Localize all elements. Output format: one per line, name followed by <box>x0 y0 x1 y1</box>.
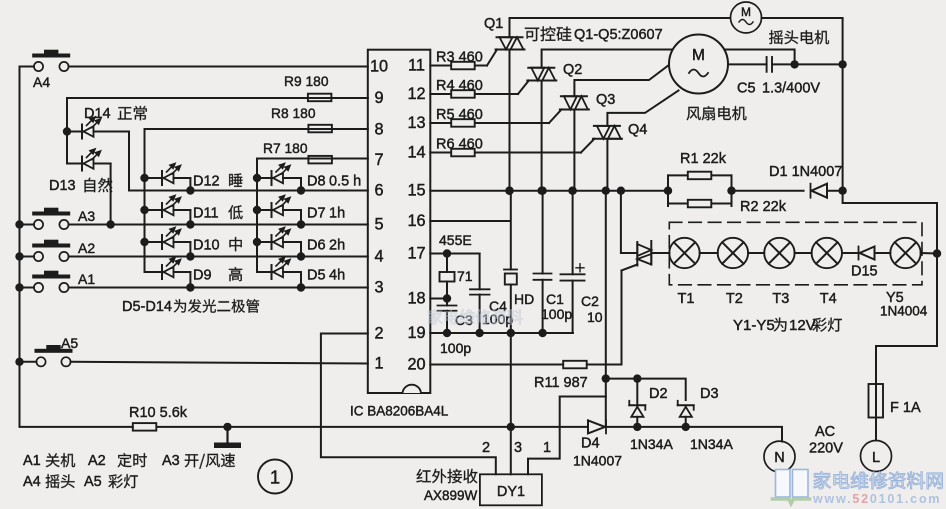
label key functions line1 <box>23 453 235 469</box>
label D9 <box>193 267 242 283</box>
svg-text:19: 19 <box>407 324 425 342</box>
label 455E <box>439 232 472 248</box>
LED D10 <box>145 227 191 256</box>
wire Q1 top <box>510 18 731 37</box>
wire Q5 gate <box>622 265 638 271</box>
node D8 <box>253 174 305 195</box>
resistor R7 <box>263 141 332 163</box>
decor <box>428 309 522 324</box>
label D10 <box>193 237 242 253</box>
wire fuse to L <box>875 418 877 441</box>
svg-text:100p: 100p <box>440 340 471 356</box>
svg-text:0.5 h: 0.5 h <box>329 174 361 190</box>
svg-text:N: N <box>774 450 784 466</box>
label Q3 <box>596 92 615 108</box>
svg-text:R8 180: R8 180 <box>271 106 316 121</box>
triac Q3 <box>560 96 589 109</box>
svg-text:F 1A: F 1A <box>890 400 921 416</box>
label D3 <box>690 386 733 452</box>
label Y5 <box>880 290 928 319</box>
wire D13 to pin5 <box>110 164 112 225</box>
svg-text:6: 6 <box>374 182 383 200</box>
svg-text:9: 9 <box>374 89 383 107</box>
lamp T2 <box>700 238 748 268</box>
label DY1 pins <box>482 440 551 456</box>
lamp Y5 <box>890 238 920 268</box>
wire Q2 anode <box>541 81 543 191</box>
lamp T4 <box>795 238 842 268</box>
svg-text:1N4007: 1N4007 <box>573 453 622 469</box>
wire pin11 lead <box>430 65 450 67</box>
label C2 <box>581 293 603 325</box>
svg-text:D8: D8 <box>307 174 326 190</box>
svg-text:R2 22k: R2 22k <box>740 199 787 215</box>
svg-text:D3: D3 <box>700 386 719 402</box>
label D2 <box>630 386 673 452</box>
svg-text:AC: AC <box>815 424 835 440</box>
label fan motor <box>687 106 747 120</box>
triac Q5 <box>637 241 651 266</box>
wire lamps to fuse <box>876 254 937 385</box>
label C4 <box>482 298 513 327</box>
wire left LED rail <box>144 178 146 272</box>
svg-text:11: 11 <box>408 57 425 75</box>
capacitor C1 <box>534 191 552 333</box>
svg-text:18: 18 <box>407 290 425 308</box>
wire pin20 <box>430 364 563 366</box>
node R bracket right <box>727 187 735 195</box>
svg-text:DY1: DY1 <box>497 484 525 500</box>
motor M1 fan <box>669 35 728 94</box>
wire motor M2 right <box>762 18 843 64</box>
wire supply column <box>605 191 607 427</box>
svg-text:A2: A2 <box>88 453 106 469</box>
switch A3 <box>20 208 368 229</box>
wire left rail <box>20 67 133 427</box>
svg-text:D10: D10 <box>193 238 220 254</box>
terminal L <box>861 441 892 472</box>
label Q2 <box>563 62 582 78</box>
svg-text:17: 17 <box>407 245 425 263</box>
wire pin9 <box>67 98 368 132</box>
label D13 <box>49 178 112 194</box>
node C4 bus <box>475 329 483 337</box>
svg-text:2h: 2h <box>329 238 345 254</box>
wire Q1 anode <box>509 50 511 191</box>
svg-text:10: 10 <box>370 58 388 76</box>
wire D1 to rail <box>827 190 843 192</box>
wire Q2 top <box>542 50 674 68</box>
svg-text:1: 1 <box>270 467 280 488</box>
svg-text:R1 22k: R1 22k <box>680 151 727 167</box>
label thyristor note <box>525 27 663 43</box>
resistor R3 <box>436 50 483 70</box>
switch A2 <box>20 240 368 261</box>
node D13 pin5 <box>106 220 114 228</box>
label D15 <box>851 264 878 280</box>
resistor R4 <box>436 78 483 98</box>
label C1 <box>541 291 572 322</box>
label C3 <box>440 312 473 356</box>
resistor R11 <box>534 361 588 391</box>
node DY1 pin3 tap <box>507 423 515 431</box>
wire pin13 lead <box>430 122 450 124</box>
wire C5 to right rail <box>795 63 843 65</box>
svg-text:T4: T4 <box>820 291 837 307</box>
node HD bus <box>507 329 515 337</box>
capacitor C4 <box>470 254 490 334</box>
svg-text:12: 12 <box>407 85 425 103</box>
svg-text:D5-D14: D5-D14 <box>122 299 172 315</box>
svg-text:1.3/400V: 1.3/400V <box>762 81 820 97</box>
svg-text:www.520101.com: www.520101.com <box>812 492 941 506</box>
label fuse <box>890 400 921 416</box>
wire DY1 pin1 <box>528 397 606 475</box>
label D8 <box>307 174 361 190</box>
wire pin19 bus <box>430 332 573 334</box>
svg-text:Y1-Y5: Y1-Y5 <box>733 317 775 334</box>
label oscillating motor <box>769 30 829 44</box>
node C5 junction <box>790 60 798 68</box>
LED D14 <box>67 117 129 139</box>
label AC 220V <box>809 424 843 457</box>
node D6 <box>253 238 305 261</box>
switch A5 <box>20 335 368 366</box>
LED D7 <box>257 195 301 224</box>
svg-text:M: M <box>692 47 705 64</box>
filter HD <box>504 191 517 427</box>
label D5-D14 <box>122 299 259 315</box>
svg-text:Q2: Q2 <box>563 62 582 78</box>
svg-text:Q1: Q1 <box>484 16 503 32</box>
wire gate Q3 <box>476 110 562 124</box>
svg-text:4h: 4h <box>329 268 345 284</box>
wire pin7 <box>257 159 368 179</box>
wire R11 to Q5 gate <box>588 271 622 365</box>
ground <box>214 423 241 448</box>
node C2 bus15 <box>568 187 576 195</box>
svg-text:D12: D12 <box>193 174 220 190</box>
IC U1 BA8206BA4L body <box>368 50 431 393</box>
svg-text:D6: D6 <box>307 238 326 254</box>
svg-text:4: 4 <box>374 248 383 266</box>
wire D4 bus to N <box>606 427 782 442</box>
svg-text:D5: D5 <box>307 268 326 284</box>
svg-text:R9 180: R9 180 <box>284 74 329 89</box>
svg-text:C5: C5 <box>737 81 756 97</box>
LED D9 <box>145 257 191 287</box>
svg-text:D4: D4 <box>581 436 600 452</box>
label D11 <box>193 205 243 221</box>
label D4 <box>573 436 622 469</box>
motor M2 oscillate <box>731 2 762 33</box>
node D14 <box>63 127 71 135</box>
node Q5 bus <box>617 187 625 195</box>
wire Q4 top <box>607 91 678 126</box>
svg-text:100p: 100p <box>541 306 572 322</box>
svg-text:1h: 1h <box>329 206 345 222</box>
svg-text:1: 1 <box>374 355 383 373</box>
triac Q1 <box>496 37 525 49</box>
svg-text:1N34A: 1N34A <box>630 436 673 452</box>
lamp T1 <box>669 238 699 268</box>
node D5 <box>297 283 305 291</box>
LED D8 <box>257 163 301 190</box>
wire gate Q4 <box>476 139 595 153</box>
page mark circled 1 <box>258 460 292 494</box>
label D14 <box>84 106 147 122</box>
node Q3 bus <box>568 187 576 195</box>
wire ground line <box>157 426 588 428</box>
switch A4 <box>20 50 368 90</box>
svg-text:L: L <box>872 450 880 466</box>
label T3 <box>772 291 789 307</box>
triac Q4 <box>593 126 622 139</box>
svg-text:R11 987: R11 987 <box>534 375 588 391</box>
svg-text:A1: A1 <box>23 453 41 469</box>
wire fan aux <box>724 50 794 65</box>
svg-text:8: 8 <box>374 120 383 138</box>
svg-text:455E: 455E <box>439 232 472 248</box>
label key functions line2 <box>23 474 138 490</box>
diode D3 <box>678 401 694 427</box>
svg-text:3: 3 <box>374 279 383 297</box>
svg-text:D1 1N4007: D1 1N4007 <box>769 164 842 180</box>
svg-text:A3: A3 <box>162 453 180 469</box>
svg-text:R3 460: R3 460 <box>436 50 483 66</box>
wire Q3 top <box>574 63 671 96</box>
svg-text:C2: C2 <box>581 293 599 309</box>
svg-text:15: 15 <box>407 182 425 200</box>
wire D2 D3 top bus <box>606 379 686 400</box>
node right rail D1 <box>838 187 846 195</box>
svg-text:220V: 220V <box>809 441 843 457</box>
label D6 <box>307 238 345 254</box>
label T1 <box>678 291 695 307</box>
wire right LED rail <box>256 178 258 272</box>
label T4 <box>820 291 837 307</box>
svg-text:IC BA8206BA4L: IC BA8206BA4L <box>350 404 449 419</box>
wire T4 to D15 <box>842 252 858 254</box>
LED D13 <box>67 132 111 171</box>
wire pin15 bus <box>430 190 668 192</box>
svg-text:R5 460: R5 460 <box>436 107 483 123</box>
watermark <box>773 470 943 507</box>
node D9 <box>186 283 194 291</box>
node crystal top <box>443 249 451 257</box>
IC U1 label <box>350 404 449 419</box>
triac Q2 <box>527 68 556 81</box>
node A2 rail <box>15 252 23 260</box>
svg-text:T3: T3 <box>772 291 789 307</box>
diode D4 <box>588 420 606 433</box>
svg-text:7: 7 <box>374 151 383 169</box>
label D12 <box>193 173 243 189</box>
svg-text:A2: A2 <box>78 240 95 256</box>
svg-text:A4: A4 <box>23 474 41 490</box>
svg-text:D9: D9 <box>193 268 212 284</box>
IC pin numbers <box>370 57 426 374</box>
svg-text:D14: D14 <box>84 106 111 122</box>
svg-text:C1: C1 <box>546 291 564 307</box>
label D5 <box>307 268 345 284</box>
wire Q4 anode <box>606 139 608 191</box>
lamp T3 <box>748 238 795 268</box>
svg-text:71: 71 <box>457 268 473 284</box>
capacitor C3 <box>438 299 457 334</box>
resistor R6 <box>436 137 483 157</box>
svg-text:M: M <box>741 5 751 19</box>
svg-text:D7: D7 <box>307 206 326 222</box>
node crystal bottom <box>443 294 451 302</box>
node D2 top <box>633 374 641 382</box>
wire Q5 anode <box>621 191 637 253</box>
svg-text:10: 10 <box>587 309 603 325</box>
IR receiver DY1 box <box>480 474 542 505</box>
capacitor C5 <box>728 57 795 72</box>
svg-text:D15: D15 <box>851 264 878 280</box>
node A3 rail <box>15 220 23 228</box>
node D11 <box>140 206 194 229</box>
svg-text:14: 14 <box>407 144 425 162</box>
node D10 <box>140 238 194 261</box>
svg-text:R4 460: R4 460 <box>436 78 483 94</box>
svg-text:R10 5.6k: R10 5.6k <box>129 405 188 421</box>
svg-text:2: 2 <box>374 325 383 343</box>
node A5 rail <box>15 358 23 366</box>
fuse F <box>869 384 884 418</box>
wire Q3 anode <box>573 110 575 191</box>
capacitor C2 <box>561 191 585 333</box>
svg-text:T1: T1 <box>678 291 695 307</box>
label D1 <box>769 164 842 180</box>
svg-text:1N34A: 1N34A <box>690 436 733 452</box>
label lamp note <box>733 317 842 334</box>
svg-text:13: 13 <box>407 114 425 132</box>
node C1 bus15 <box>538 187 546 195</box>
wire right rail to lamps <box>843 191 937 254</box>
svg-text:A4: A4 <box>33 74 50 90</box>
LED D6 <box>257 227 301 256</box>
svg-text:A5: A5 <box>61 335 78 351</box>
LED D11 <box>145 195 191 224</box>
svg-text:5: 5 <box>374 216 383 234</box>
wire pin18 <box>430 298 447 300</box>
wire right rail down <box>842 64 844 190</box>
node D7 <box>253 206 305 229</box>
wire pin16 <box>430 220 509 222</box>
LED D12 <box>145 163 191 190</box>
crystal 455E <box>440 254 455 299</box>
node supply D2 line <box>602 374 610 382</box>
diode D15 <box>859 247 875 260</box>
node Q2 bus <box>537 187 545 195</box>
wire DY1 pin3 <box>510 427 512 474</box>
diode D1 <box>811 184 828 198</box>
svg-text:Q3: Q3 <box>596 92 615 108</box>
svg-text:12V: 12V <box>789 317 816 334</box>
svg-text:16: 16 <box>407 212 425 230</box>
svg-text:D2: D2 <box>649 386 668 402</box>
label C5 <box>737 81 820 97</box>
node Q1 bus <box>505 187 513 195</box>
label Q1 <box>484 16 503 32</box>
svg-text:A3: A3 <box>78 208 95 224</box>
wire D15 to Y5 <box>875 252 891 254</box>
svg-text:HD: HD <box>514 291 534 307</box>
svg-text:D13: D13 <box>49 178 76 194</box>
node C3 bus <box>443 329 451 337</box>
svg-text:3: 3 <box>514 440 522 456</box>
label Q4 <box>628 122 647 138</box>
node A1 rail <box>15 283 23 291</box>
resistor R1 <box>668 151 732 206</box>
node lamp right <box>933 249 941 257</box>
node Q4 bus <box>602 187 610 195</box>
switch A1 <box>20 271 368 292</box>
svg-text:1: 1 <box>543 440 551 456</box>
node HD bus15 <box>505 187 513 195</box>
svg-text:D11: D11 <box>193 206 219 222</box>
svg-text:20: 20 <box>407 356 425 374</box>
svg-text:AX899W: AX899W <box>424 488 478 503</box>
label D7 <box>307 206 345 222</box>
node D2 bottom <box>633 423 641 431</box>
label IR receiver <box>417 469 478 503</box>
resistor R10 <box>129 405 188 431</box>
wire Q5 to T1 <box>651 252 669 254</box>
resistor R5 <box>436 107 483 127</box>
resistor R9 <box>284 74 331 101</box>
svg-text:R6 460: R6 460 <box>436 137 483 153</box>
svg-text:T2: T2 <box>726 291 743 307</box>
wire pin12 lead <box>430 93 450 95</box>
svg-text:R7 180: R7 180 <box>263 141 308 156</box>
svg-text:Q1-Q5:Z0607: Q1-Q5:Z0607 <box>574 27 663 43</box>
node C1 bus <box>538 329 546 337</box>
label crystal 71 <box>457 268 473 284</box>
wire pin17 <box>430 253 479 255</box>
svg-text:1N4004: 1N4004 <box>880 304 928 319</box>
wire pin8 <box>145 129 368 178</box>
svg-text:A5: A5 <box>84 474 102 490</box>
wire to D1 <box>732 190 804 192</box>
diode D2 <box>629 379 645 427</box>
wire pin2 to DY1 <box>321 334 496 475</box>
LED D5 <box>257 257 301 287</box>
node D3 bottom <box>682 423 690 431</box>
node D12 <box>140 174 194 195</box>
lamp box dashed <box>669 222 922 284</box>
node R bracket left <box>664 187 672 195</box>
wire D14 to pin6 <box>129 132 368 191</box>
resistor R8 <box>271 106 332 132</box>
wire pin14 lead <box>430 152 450 154</box>
svg-text:Q4: Q4 <box>628 122 647 138</box>
terminal N <box>764 441 795 472</box>
svg-text:2: 2 <box>482 440 490 456</box>
resistor R2 <box>668 175 787 215</box>
wire gate Q1 <box>476 50 498 66</box>
label HD <box>514 291 534 307</box>
wire Y5 right <box>921 252 937 255</box>
wire gate Q2 <box>476 81 529 95</box>
svg-text:A1: A1 <box>78 271 95 287</box>
node right rail C5 <box>838 60 846 68</box>
label T2 <box>726 291 743 307</box>
